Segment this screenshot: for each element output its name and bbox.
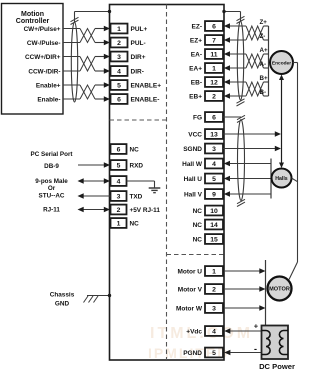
pin 5 PGND <box>205 348 223 358</box>
svg-text:4: 4 <box>212 328 216 335</box>
motor circle <box>268 277 292 301</box>
wire Hall V <box>224 191 230 196</box>
dashed divider horizontal left <box>110 119 167 121</box>
svg-text:FG: FG <box>193 114 202 121</box>
transformer left winding <box>262 331 271 355</box>
svg-text:DIR-: DIR- <box>131 68 144 75</box>
svg-text:NC: NC <box>130 220 140 227</box>
encoder wire A- <box>224 65 230 70</box>
svg-text:Chassis: Chassis <box>50 291 75 298</box>
pin 15 NC <box>205 234 223 244</box>
svg-text:1: 1 <box>117 220 121 227</box>
wire CCW-/DIR- to pin 4 <box>63 70 80 72</box>
pin 4 DIR- <box>111 66 128 76</box>
motion controller box <box>2 4 64 115</box>
svg-text:11: 11 <box>210 51 217 58</box>
transformer right winding <box>279 331 288 355</box>
svg-text:9: 9 <box>212 191 216 198</box>
DC power transformer box <box>262 326 289 360</box>
svg-text:STU--AC: STU--AC <box>39 192 65 199</box>
svg-text:DC Power: DC Power <box>259 362 295 371</box>
encoder wire Z+ <box>224 23 230 28</box>
svg-text:EA-: EA- <box>191 51 202 58</box>
svg-text:NC: NC <box>193 236 203 243</box>
svg-text:MOTOR: MOTOR <box>269 287 290 293</box>
svg-text:NC: NC <box>193 222 203 229</box>
twisted pair CCW+/DIR+/CCW-/DIR- <box>80 57 95 72</box>
svg-text:5: 5 <box>212 350 216 357</box>
wire DB-9 to RXD pin 5 <box>78 164 104 166</box>
wire Hall U <box>224 176 230 181</box>
encoder shield bottom hatch <box>237 99 245 103</box>
wire SGND to encoder/halls <box>223 148 276 150</box>
svg-text:RJ-11: RJ-11 <box>43 206 60 213</box>
wire Motor U <box>224 270 260 272</box>
wire Motor W <box>224 307 260 309</box>
svg-text:Z+: Z+ <box>260 19 268 26</box>
svg-text:CCW-/DIR-: CCW-/DIR- <box>28 68 60 75</box>
pin 3 SGND <box>205 144 223 154</box>
pin 5 ENABLE+ <box>111 80 128 90</box>
pin 2 EB+ <box>205 91 223 101</box>
svg-text:VCC: VCC <box>188 131 202 138</box>
svg-text:1: 1 <box>117 26 121 33</box>
twisted pair CW+/Pulse+/CW-/Pulse- <box>80 29 95 43</box>
svg-text:CCW+/DIR+: CCW+/DIR+ <box>25 54 61 61</box>
dashed divider horizontal right <box>167 254 225 256</box>
svg-text:+Vdc: +Vdc <box>186 328 202 335</box>
encoder wire B- <box>224 93 230 98</box>
wire TXD pin 3 to STU--AC <box>84 195 111 197</box>
svg-text:A-: A- <box>260 61 267 68</box>
svg-text:CW+/Pulse+: CW+/Pulse+ <box>24 26 61 33</box>
svg-text:2: 2 <box>212 286 216 293</box>
pin 4 Hall W <box>205 159 223 169</box>
svg-text:14: 14 <box>210 222 218 229</box>
svg-text:CW-/Pulse-: CW-/Pulse- <box>27 40 61 47</box>
svg-text:Enable+: Enable+ <box>36 82 61 89</box>
svg-text:EB-: EB- <box>191 79 202 86</box>
svg-text:10: 10 <box>210 208 218 215</box>
signal ground from serial pin 4 <box>127 180 155 182</box>
encoder twisted pair Z+/Z- <box>246 26 264 40</box>
svg-text:Motor V: Motor V <box>178 286 203 293</box>
svg-text:1: 1 <box>212 65 216 72</box>
svg-text:5: 5 <box>212 176 216 183</box>
drive connector main box <box>110 5 225 361</box>
wire Hall W <box>224 161 230 166</box>
svg-text:Hall U: Hall U <box>184 176 203 183</box>
svg-text:ENABLE-: ENABLE- <box>131 96 160 103</box>
dashed divider vertical <box>166 5 168 361</box>
svg-text:4: 4 <box>117 68 121 75</box>
svg-text:DIR+: DIR+ <box>131 54 146 61</box>
encoder wire Z- <box>224 37 230 42</box>
svg-text:EZ-: EZ- <box>192 23 202 30</box>
pin 10 NC <box>205 206 223 216</box>
svg-text:2: 2 <box>117 207 121 214</box>
svg-text:4: 4 <box>117 178 121 185</box>
svg-text:NC: NC <box>130 146 140 153</box>
pin 3 Motor W <box>205 303 223 313</box>
svg-text:B-: B- <box>260 89 267 96</box>
svg-text:PUL-: PUL- <box>131 40 146 47</box>
svg-text:Hall V: Hall V <box>184 191 203 198</box>
pin 6 ENABLE- <box>111 94 128 104</box>
svg-text:NC: NC <box>193 208 203 215</box>
svg-text:Hall W: Hall W <box>182 161 203 168</box>
motor bus <box>265 260 267 326</box>
svg-text:SGND: SGND <box>183 146 202 153</box>
wire 9-pos male to pin 4 (both arrows) <box>84 180 105 182</box>
svg-text:GND: GND <box>55 300 70 307</box>
wire Motor V <box>224 288 260 290</box>
svg-text:Z-: Z- <box>260 33 266 40</box>
halls circle <box>272 169 292 188</box>
encoder shield drain wire <box>240 12 242 22</box>
svg-text:PC Serial Port: PC Serial Port <box>31 151 74 158</box>
pin 7 EZ+ <box>205 35 223 45</box>
serial pin 6 NC <box>111 144 127 154</box>
serial pin 1 NC <box>111 218 127 228</box>
svg-text:EA+: EA+ <box>189 65 202 72</box>
encoder cable shield ellipse <box>237 21 243 100</box>
pin 6 FG <box>205 112 223 122</box>
encoder signal bus <box>268 26 270 96</box>
twisted pair Enable+/Enable- <box>80 85 95 99</box>
wire CW-/Pulse- to pin 2 <box>63 42 80 44</box>
svg-text:Motion: Motion <box>21 11 44 18</box>
junction dot encoder shield <box>222 10 225 13</box>
svg-text:RXD: RXD <box>130 162 144 169</box>
svg-text:7: 7 <box>212 37 216 44</box>
svg-text:DB-9: DB-9 <box>44 163 59 170</box>
pin 2 Motor V <box>205 284 223 294</box>
left cable shield ellipse <box>71 22 77 102</box>
svg-text:Motor U: Motor U <box>177 268 202 275</box>
svg-text:Motor W: Motor W <box>176 305 203 312</box>
svg-text:EB+: EB+ <box>189 93 202 100</box>
encoder twisted pair A+/A- <box>246 54 264 68</box>
wire PGND to DC power <box>224 350 230 355</box>
svg-text:5: 5 <box>117 82 121 89</box>
wire RJ-11 to pin 2 (both arrows) <box>84 209 105 211</box>
svg-text:2: 2 <box>117 40 121 47</box>
wire CW+/Pulse+ to pin 1 <box>63 28 80 30</box>
junction dot left shield <box>108 10 111 13</box>
pin 6 EZ- <box>205 21 223 31</box>
svg-text:6: 6 <box>212 114 216 121</box>
wire Enable+ to pin 5 <box>63 84 80 86</box>
left shield drain wire to drive <box>74 12 76 23</box>
pin 1 PUL+ <box>111 24 128 34</box>
wire FG to hall cable shield <box>223 116 241 118</box>
svg-text:B+: B+ <box>260 75 268 82</box>
pin 1 EA+ <box>205 63 223 73</box>
encoder to halls line with arrows <box>281 77 283 167</box>
svg-text:6: 6 <box>117 146 121 153</box>
hall shield bottom hatch <box>237 199 245 203</box>
svg-text:TXD: TXD <box>130 193 143 200</box>
serial pin 4 blank <box>111 176 127 186</box>
pin 9 Hall V <box>205 189 223 199</box>
svg-text:1: 1 <box>212 268 216 275</box>
svg-text:5: 5 <box>117 162 121 169</box>
svg-text:6: 6 <box>117 96 121 103</box>
svg-text:+: + <box>254 322 259 331</box>
pin 12 EB- <box>205 77 223 87</box>
encoder circle <box>270 51 293 74</box>
svg-text:3: 3 <box>212 305 216 312</box>
encoder wire A+ <box>224 51 230 56</box>
svg-text:Or: Or <box>48 185 56 192</box>
svg-text:6: 6 <box>212 23 216 30</box>
serial pin 5 RXD <box>111 160 127 170</box>
svg-text:4: 4 <box>212 161 216 168</box>
svg-text:PUL+: PUL+ <box>131 26 148 33</box>
svg-text:3: 3 <box>117 54 121 61</box>
svg-text:3: 3 <box>117 193 121 200</box>
svg-text:Enable-: Enable- <box>37 96 60 103</box>
motor assembly line (encoder-halls-motor) <box>293 62 298 64</box>
serial pin 2 +5V RJ-11 <box>111 205 127 215</box>
wire VCC to encoder/halls <box>223 133 276 135</box>
pin 3 DIR+ <box>111 52 128 62</box>
pin 13 VCC <box>205 129 223 139</box>
svg-text:12: 12 <box>210 79 218 86</box>
pin 4 +Vdc <box>205 326 223 336</box>
svg-text:2: 2 <box>212 93 216 100</box>
encoder wire B+ <box>224 79 230 84</box>
wire +Vdc to DC power <box>224 328 230 333</box>
pin 14 NC <box>205 220 223 230</box>
pin 11 EA- <box>205 49 223 59</box>
svg-text:-: - <box>254 344 257 354</box>
junction dot chassis <box>108 294 111 297</box>
hall cable shield ellipse <box>238 120 245 201</box>
halls bus <box>270 159 272 199</box>
encoder twisted pair B+/B- <box>246 82 264 96</box>
pin 5 Hall U <box>205 174 223 184</box>
svg-text:3: 3 <box>212 146 216 153</box>
svg-text:13: 13 <box>210 131 218 138</box>
pin 2 PUL- <box>111 38 128 48</box>
svg-text:Controller: Controller <box>16 18 50 25</box>
chassis ground symbol and wire <box>87 295 110 297</box>
svg-text:Halls: Halls <box>275 176 288 182</box>
svg-text:ENABLE+: ENABLE+ <box>131 82 162 89</box>
svg-text:Encoder: Encoder <box>272 60 291 66</box>
svg-text:+5V RJ-11: +5V RJ-11 <box>130 207 161 214</box>
wire CCW+/DIR+ to pin 3 <box>63 56 80 58</box>
wire Enable- to pin 6 <box>63 98 80 100</box>
serial pin 3 TXD <box>111 191 127 201</box>
svg-text:9-pos Male: 9-pos Male <box>35 178 68 185</box>
svg-text:15: 15 <box>210 236 218 243</box>
svg-text:PGND: PGND <box>183 350 202 357</box>
svg-text:A+: A+ <box>260 47 268 54</box>
pin 1 Motor U <box>205 266 223 276</box>
svg-text:EZ+: EZ+ <box>190 37 202 44</box>
decorative watermark (not labelled as component) <box>148 325 253 361</box>
